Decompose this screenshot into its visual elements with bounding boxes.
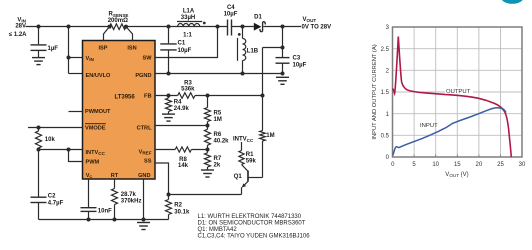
node VOUT junction [281,25,285,29]
svg-text:33µH: 33µH [181,15,195,21]
capacitor C1 10uF [160,27,191,74]
node L1B bottom junction [241,72,245,76]
resistor R4 24.9k [166,96,190,114]
svg-text:R3: R3 [184,80,192,86]
svg-text:C1,C3,C4: TAIYO YUDEN GMK316BJ: C1,C3,C4: TAIYO YUDEN GMK316BJ106 [198,234,311,240]
svg-text:1µF: 1µF [48,46,59,52]
pin RT label [111,173,119,179]
svg-text:1M: 1M [266,133,274,139]
svg-text:≤ 1.2A: ≤ 1.2A [9,32,27,38]
svg-text:RSENSE: RSENSE [109,12,129,18]
svg-text:1M: 1M [214,117,222,123]
transformer phasing dot L1B [238,33,241,36]
svg-text:10µF: 10µF [224,11,238,17]
inductor L1B (transformer secondary) [238,27,259,74]
capacitor C4 10uF coupling [224,5,238,35]
svg-text:R1: R1 [246,152,254,158]
svg-text:59k: 59k [246,159,257,165]
svg-text:10µF: 10µF [293,63,307,69]
svg-text:VC: VC [86,173,93,179]
pin VMODE label with overline [85,124,106,132]
chart y-axis tick labels [381,25,390,161]
diode D1 MBRS360T schottky [254,14,265,31]
VOUT output label [302,17,332,31]
node VMODE/10k junction [37,126,41,130]
svg-text:370kHz: 370kHz [121,199,142,205]
svg-text:1.5: 1.5 [381,90,390,96]
svg-text:EN/UVLO: EN/UVLO [86,73,112,79]
pin PWM label [86,159,100,165]
wire VREF to R8 [155,149,208,151]
wire CTRL to R5/R6 junction [155,125,208,127]
svg-text:25: 25 [497,162,504,168]
pin ISN label [127,45,136,51]
ground below C3 [276,77,289,84]
resistor R3 536k [178,80,195,98]
svg-text:14k: 14k [178,163,189,169]
svg-text:200mΩ: 200mΩ [108,18,128,24]
chart x-axis title VOUT (V) [445,172,468,178]
svg-text:VMODE: VMODE [85,126,106,132]
label 1:1 transformer ratio [183,32,192,38]
svg-text:INPUT: INPUT [420,123,438,129]
node ISN sense junction [124,25,128,29]
svg-text:4.7µF: 4.7µF [48,200,64,206]
resistor 1M [260,131,275,141]
svg-text:Q1: MMBTA42: Q1: MMBTA42 [198,227,238,233]
svg-text:PGND: PGND [135,73,151,79]
resistor 10k pullup [36,128,56,150]
node ISP sense junction [108,25,112,29]
wire bottom rail [39,219,169,221]
wire FB line [155,95,263,97]
node RT bottom junction [113,218,117,222]
pin FB label [144,94,151,100]
svg-text:R8: R8 [179,157,187,163]
logo teal ellipse top right [501,0,524,4]
capacitor 1uF input bypass [31,27,59,58]
node C1 top junction [167,25,171,29]
wire INTVCC row to IC [39,149,83,151]
svg-text:30: 30 [519,162,526,168]
chart y-axis title INPUT AND OUTPUT CURRENT (A) [372,44,378,139]
ground below GND pin [137,223,150,230]
chart axes frame [393,27,523,157]
resistor R5 1M [205,96,222,130]
svg-text:D1: ON SEMICONDUCTOR MBRS360T: D1: ON SEMICONDUCTOR MBRS360T [198,221,306,227]
svg-text:INPUT AND OUTPUT CURRENT (A): INPUT AND OUTPUT CURRENT (A) [372,44,378,139]
svg-text:C2: C2 [48,193,56,199]
resistor R6 40.2k [205,129,230,153]
pin EN/UVLO label [86,73,112,79]
wire top rail segment 2 (RSENSE to C4) [126,26,228,28]
resistor R2 30.1k [166,200,190,220]
ground below 1uF [32,58,45,65]
transformer phasing dot L1A [203,22,206,25]
transistor Q1 MMBTA42 [234,165,263,195]
resistor RSENSE 200mOhm [108,12,129,30]
svg-text:L1: WURTH ELEKTRONIK 744871330: L1: WURTH ELEKTRONIK 744871330 [198,214,302,220]
svg-text:LT3956: LT3956 [115,94,136,100]
pin SW label [142,56,152,62]
capacitor C2 4.7uF [31,150,64,220]
svg-text:R4: R4 [174,100,182,106]
node input cap junction [37,25,41,29]
inductor L1A 33uH (transformer primary) [177,8,202,26]
svg-text:C4: C4 [227,5,235,11]
svg-text:Q1: Q1 [234,174,243,180]
node VC/10nF bottom junction [87,218,91,222]
wire PGND line [155,73,283,75]
svg-text:1: 1 [386,112,390,118]
resistor RT 28.7k [112,179,142,219]
svg-text:10µF: 10µF [178,48,192,54]
svg-text:20: 20 [476,162,483,168]
node 10k bottom junction [37,148,41,152]
chart label OUTPUT [445,87,473,95]
svg-text:ISP: ISP [98,45,107,51]
ground below R4 [162,114,175,121]
svg-text:R2: R2 [174,203,182,209]
op-amp U1 LT3956 IC body [83,41,156,180]
wire 1M column [262,48,264,178]
node PWM tie junction [67,148,71,152]
wire SW pin to rail [155,27,218,58]
pin GND bottom label [138,173,150,179]
svg-text:10k: 10k [45,137,56,143]
resistor R1 59k [239,151,257,165]
svg-text:R5: R5 [214,111,222,117]
node R6/R7/R8 junction [206,148,210,152]
wire PWMOUT stub [69,111,83,113]
wire VMODE line [28,127,83,129]
wire top rail segment 1 (VIN to RSENSE) [26,26,110,28]
node GND bottom junction [142,218,146,222]
svg-text:40.2k: 40.2k [214,138,230,144]
svg-text:0: 0 [391,162,395,168]
node FB/R5 junction [206,94,210,98]
node C3 ground junction [281,72,285,76]
svg-text:0V TO 28V: 0V TO 28V [302,24,332,30]
net label INTVCC at R1 [233,137,254,151]
svg-text:INTVCC: INTVCC [86,150,106,156]
pin VIN label [86,56,95,62]
svg-text:24.9k: 24.9k [174,106,190,112]
svg-text:SW: SW [142,56,152,62]
svg-text:GND: GND [138,173,150,179]
svg-text:5: 5 [412,162,416,168]
capacitor C3 10uF output [276,55,307,73]
wire SS to R2 column [155,163,169,200]
chart curve INPUT blue [393,108,507,156]
svg-text:VIN: VIN [86,56,95,62]
chart x-axis tick labels [391,162,526,168]
pin INTVCC label [86,150,106,156]
svg-text:C3: C3 [293,55,301,61]
svg-text:VREF: VREF [139,149,152,155]
node EN column junction [67,25,71,29]
svg-text:10nF: 10nF [98,209,112,215]
ground below R7 [201,170,214,177]
node SW junction on rail [216,25,220,29]
svg-text:10: 10 [432,162,439,168]
node CTRL junction [206,124,210,128]
svg-text:VIN: VIN [17,17,26,23]
svg-text:L1B: L1B [247,49,259,55]
svg-text:PWM: PWM [86,159,100,165]
svg-text:R7: R7 [214,156,222,162]
svg-text:INTVCC: INTVCC [233,137,254,143]
svg-text:D1: D1 [254,14,262,20]
node L1B top junction [241,25,245,29]
svg-text:0.5: 0.5 [381,134,390,140]
chart gridlines [393,27,523,157]
svg-text:PWMOUT: PWMOUT [85,109,111,115]
svg-text:0: 0 [386,155,390,161]
notes parts list [198,214,311,240]
wire GND pin down [143,179,145,219]
wire ISP connector [104,27,110,41]
svg-text:OUTPUT: OUTPUT [446,89,471,95]
chart curve OUTPUT red [393,37,512,158]
svg-text:C1: C1 [178,41,186,47]
wire VOUT to C3 and feedback tap [263,27,283,58]
svg-text:3: 3 [386,25,390,31]
wire top rail segment 4 (D1 to VOUT) [264,26,302,28]
pin CTRL label [137,126,152,132]
svg-text:SS: SS [144,159,152,165]
pin VREF label [139,149,152,155]
pin PGND label [135,73,151,79]
svg-text:30.1k: 30.1k [174,209,190,215]
svg-text:1:1: 1:1 [183,32,192,38]
node FB/1M junction [261,94,265,98]
pin VC label [86,173,93,179]
node SS/R2/emitter junction [167,193,171,197]
node C1 bottom junction [167,72,171,76]
node feedback tap junction [281,46,285,50]
wire top rail segment 3 (C4 to D1) [232,26,254,28]
chart plot background [393,27,523,157]
svg-text:2: 2 [386,69,390,75]
resistor R8 14k [175,147,191,169]
wire EN/VIN column [69,27,83,74]
resistor R7 2k [205,153,222,170]
svg-text:2k: 2k [214,162,221,168]
svg-text:536k: 536k [181,87,195,93]
VIN source label [9,17,27,38]
node FB/R4 junction [167,94,171,98]
pin SS label [144,159,152,165]
svg-text:R6: R6 [214,132,222,138]
svg-text:ISN: ISN [127,45,136,51]
svg-text:28V: 28V [15,24,26,30]
svg-text:15: 15 [454,162,461,168]
pin ISP label [98,45,107,51]
capacitor 10nF on VC [81,179,113,219]
wire ISN connector [126,27,133,41]
pin PWMOUT label [85,109,111,115]
svg-text:FB: FB [144,94,151,100]
svg-text:VOUT (V): VOUT (V) [445,172,468,178]
svg-text:CTRL: CTRL [137,126,152,132]
node VIN pin junction [67,56,71,60]
chart label INPUT [420,123,438,129]
wire emitter line [169,194,242,196]
svg-text:28.7k: 28.7k [121,192,137,198]
svg-text:2.5: 2.5 [381,47,390,53]
svg-text:RT: RT [111,173,119,179]
wire PWM tie [69,150,83,162]
svg-text:L1A: L1A [183,8,195,14]
svg-text:VOUT: VOUT [303,17,317,23]
